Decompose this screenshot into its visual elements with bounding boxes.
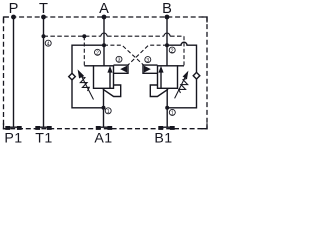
node J2 on B line [165,43,169,47]
svg-text:2: 2 [171,48,174,54]
valve V1 spring [80,77,89,92]
node T [41,15,46,20]
node P [11,15,16,20]
valve V2 pilot triangle [144,66,151,73]
wire V1 check branch [72,45,104,73]
node drain junction V1 [82,34,86,38]
check valve CV1 [69,73,76,80]
wire V1 outlet to A1 [103,88,105,127]
valve V2 feedback passage [150,85,168,97]
node J1 on A line [102,43,106,47]
wire T vertical [43,17,45,127]
svg-text:A1: A1 [94,130,112,146]
valve V1 flow arrow [109,72,111,89]
label circle 3 (V1) [116,56,122,62]
wire B vertical to valve V2 [166,17,168,66]
wire V2 check branch (hops drain) [167,42,197,72]
svg-text:3: 3 [118,58,121,64]
svg-text:T: T [39,1,48,17]
valve V1 feedback passage [103,85,121,97]
wire P vertical [13,17,15,127]
valve V2 adjust arrow [175,78,185,99]
valve V1 body [94,66,114,89]
port P1 face symbol [5,126,21,130]
svg-text:P1: P1 [4,130,22,146]
svg-text:T1: T1 [35,130,53,146]
valve V1 pilot triangle [120,66,127,73]
wire A vertical to valve V1 [103,17,105,66]
svg-text:1: 1 [107,109,110,115]
label circle 1 (V2) [169,109,175,115]
wire V1 drain drop (dashed) [83,36,85,66]
enclosure dashed border [4,17,208,129]
node B [165,15,170,20]
port T1 face symbol [35,126,51,130]
valve V2 body [158,66,178,89]
port A1 face symbol [96,126,112,130]
node V2 outlet junction [165,106,169,110]
node T-drain junction [42,34,46,38]
port B1 face symbol [158,126,174,130]
check valve CV2 [193,72,200,79]
wire V1 drain to box top [84,65,93,67]
wire CV1 to outlet [72,80,104,108]
node V1 outlet junction [102,106,106,110]
pilot line B to V1 (dashed) [128,45,167,65]
svg-text:B1: B1 [154,130,172,146]
svg-text:4: 4 [47,41,50,47]
valve V1 adjust arrow [81,76,93,100]
label circle 2 (V1) [95,49,101,55]
node A [102,15,107,20]
svg-text:2: 2 [96,51,99,57]
wire drain line T to V2 (dashed, hops over A and B lines) [44,35,185,37]
label circle 2 (V2) [169,47,175,53]
label circle 4 [45,40,51,46]
label circle 3 (V2) [145,57,151,63]
valve V2 spring [179,79,188,94]
wire CV2 to outlet [167,79,196,108]
pilot line A to V2 (dashed) [104,45,143,65]
label circle 1 (V1) [105,108,111,114]
valve V1 pilot port box [114,65,129,73]
svg-text:3: 3 [146,58,149,64]
valve V2 flow arrow [160,72,162,89]
border corner pieces [4,17,208,129]
wire V2 outlet to B1 [166,88,168,127]
wire V2 drain to box top [178,65,185,67]
valve V2 pilot port box [143,65,158,73]
svg-text:A: A [99,1,109,17]
wire V2 drain drop (dashed) [183,36,185,66]
svg-text:1: 1 [171,111,174,117]
